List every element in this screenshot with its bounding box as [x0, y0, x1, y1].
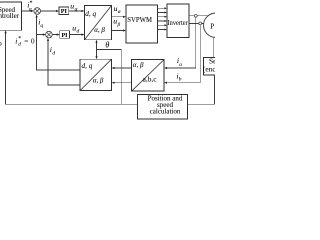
wire u_alpha to SVPWM	[112, 16, 125, 18]
iq return wire	[37, 16, 80, 70]
inverter box	[167, 4, 189, 38]
inverse park transform box T1	[85, 6, 112, 40]
svg-text:SVPWM: SVPWM	[127, 15, 152, 24]
ia measurement wire	[166, 17, 196, 68]
wire u_beta to SVPWM	[112, 30, 125, 32]
svg-text:q: q	[40, 23, 43, 29]
svg-text:i: i	[15, 36, 17, 45]
svg-text:α, β: α, β	[93, 77, 104, 85]
svg-text:a: a	[179, 62, 182, 68]
svg-text:α, β: α, β	[133, 61, 144, 69]
svg-text:PI: PI	[61, 9, 68, 15]
omega feedback wire	[6, 32, 138, 104]
T1 diagonal	[85, 6, 112, 40]
shaft link motor to sensor	[213, 37, 215, 58]
wire speed controller to summer1	[22, 10, 33, 12]
svg-text:PI: PI	[61, 33, 68, 39]
wire summer1 to PI1	[41, 10, 58, 12]
svg-text:θ: θ	[105, 41, 109, 50]
svg-text:d, q: d, q	[85, 10, 96, 18]
sensor to position box wire	[188, 75, 215, 104]
svg-text:α, β: α, β	[94, 26, 105, 34]
theta branch up into T1	[96, 41, 98, 49]
theta wire from position box	[97, 49, 122, 104]
wire summer2 to PI2	[52, 34, 58, 36]
svg-text:a,b,c: a,b,c	[143, 75, 158, 84]
svg-text:q: q	[75, 7, 78, 13]
PI controller U1	[59, 7, 69, 14]
wire PI2 to park box, label ud	[69, 34, 83, 36]
svg-text:calculation: calculation	[150, 108, 181, 116]
i_alpha wire T3 to T2	[113, 67, 132, 69]
gate signal arrows SVPWM to inverter	[158, 8, 166, 29]
svg-text:β: β	[117, 22, 121, 28]
theta branch down into T2	[96, 49, 98, 58]
clarke transform box T3	[132, 60, 165, 92]
motor PMSM M1	[204, 13, 228, 37]
svg-text:d: d	[77, 29, 80, 35]
sensor box	[203, 58, 233, 76]
svg-text:b: b	[179, 77, 182, 83]
svg-text:ω: ω	[0, 38, 2, 47]
T3 diagonal	[132, 60, 165, 92]
wire PI1 to park box, label uq	[69, 10, 83, 12]
svg-text:d, q: d, q	[82, 62, 93, 70]
phase wire a inverter to motor	[189, 15, 209, 17]
position and speed calculation box	[137, 95, 187, 120]
id return wire	[48, 39, 80, 85]
svg-text:α: α	[118, 9, 121, 15]
i_beta wire T3 to T2	[113, 82, 132, 84]
svg-text:q: q	[29, 7, 32, 13]
summing junction S1	[34, 8, 41, 15]
ib measurement wire	[166, 25, 201, 83]
svg-text:d: d	[18, 42, 21, 48]
svg-text:P: P	[210, 22, 214, 30]
svg-text:(encoder): (encoder)	[203, 64, 215, 73]
svg-text:0: 0	[31, 37, 35, 45]
park transform box T2	[80, 59, 112, 90]
phase wire b inverter to motor	[189, 22, 205, 24]
current sensor node a	[194, 14, 197, 17]
current sensor node b	[199, 22, 202, 25]
T2 diagonal	[80, 59, 112, 90]
speed controller box	[0, 2, 22, 30]
SVPWM box	[126, 5, 158, 43]
svg-text:Inverter: Inverter	[168, 18, 189, 27]
svg-text:=: =	[24, 37, 28, 45]
svg-text:controller: controller	[0, 12, 20, 20]
wire id* to summer2	[36, 34, 44, 36]
svg-text:d: d	[52, 50, 55, 56]
summing junction S2	[46, 31, 53, 38]
PI controller U2	[60, 31, 70, 39]
